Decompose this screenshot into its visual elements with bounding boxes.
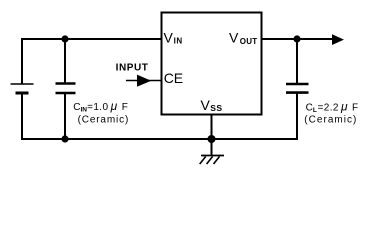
svg-text:F: F xyxy=(352,103,358,114)
wire ground stub xyxy=(211,139,213,156)
battery positive plate xyxy=(11,83,34,85)
node junction dot CL top xyxy=(293,35,300,42)
svg-text:(Ceramic): (Ceramic) xyxy=(78,114,130,125)
wire CE input xyxy=(126,80,162,82)
node junction dot CIN top xyxy=(61,35,68,42)
IC U1 voltage regulator body xyxy=(162,13,262,115)
wire CL upper lead xyxy=(296,39,298,84)
ground xyxy=(200,156,224,165)
svg-text:V: V xyxy=(164,30,174,46)
wire VOUT output xyxy=(262,38,334,40)
label CIN value xyxy=(73,99,129,125)
svg-text:=1.0: =1.0 xyxy=(87,102,108,113)
wire CIN lower lead xyxy=(64,93,66,139)
label CL value xyxy=(304,100,358,126)
svg-text:OUT: OUT xyxy=(240,37,257,46)
capacitor CL xyxy=(286,84,309,93)
svg-text:INPUT: INPUT xyxy=(116,63,149,74)
svg-text:(Ceramic): (Ceramic) xyxy=(304,115,357,126)
input arrowhead xyxy=(137,75,151,87)
wire top input rail xyxy=(21,38,162,40)
capacitor CIN xyxy=(56,84,76,94)
svg-text:V: V xyxy=(201,97,211,113)
svg-text:IN: IN xyxy=(174,36,183,45)
svg-text:C: C xyxy=(73,102,80,113)
wire left battery drop xyxy=(21,38,23,84)
svg-text:L: L xyxy=(313,107,317,114)
wire bottom ground rail xyxy=(21,138,297,140)
svg-text:CE: CE xyxy=(164,70,183,86)
svg-text:F: F xyxy=(122,102,128,113)
svg-text:C: C xyxy=(306,103,313,114)
battery negative plate xyxy=(16,92,29,95)
wire VSS pin xyxy=(211,115,213,139)
output arrowhead xyxy=(332,34,344,45)
svg-text:μ: μ xyxy=(340,100,348,114)
node junction dot VSS ground xyxy=(208,135,216,143)
svg-text:μ: μ xyxy=(110,99,118,113)
wire CIN upper lead xyxy=(64,39,66,83)
pin VSS label xyxy=(201,97,223,113)
pin VIN label xyxy=(164,30,183,46)
wire battery to bottom rail xyxy=(21,93,23,140)
svg-text:=2.2: =2.2 xyxy=(318,103,339,114)
node junction dot CIN bottom xyxy=(61,135,68,142)
wire CL lower lead xyxy=(296,93,298,140)
svg-text:SS: SS xyxy=(210,103,222,113)
svg-text:V: V xyxy=(229,30,239,46)
pin VOUT label xyxy=(229,30,257,47)
